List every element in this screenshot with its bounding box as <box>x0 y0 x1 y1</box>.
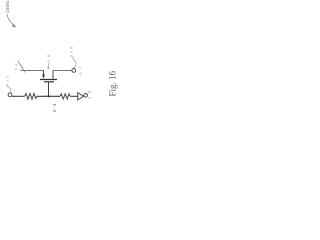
buffer triangle <box>78 93 84 100</box>
node: input terminal (bottom left) <box>8 93 12 97</box>
junction dot <box>47 95 49 97</box>
resistor R2 <box>60 94 70 99</box>
leader squiggle to 1602b <box>7 86 11 93</box>
resistor R1 <box>25 94 37 100</box>
source lead <box>52 71 54 80</box>
svg-text:Fig. 16: Fig. 16 <box>108 70 118 96</box>
wire: R2 to buffer <box>70 95 77 97</box>
leader squiggle to 1608 <box>73 57 76 69</box>
leader arrow from 1600 <box>7 14 14 25</box>
transistor Q1 (MOSFET) <box>40 71 57 97</box>
gate bar <box>44 81 54 83</box>
node: bottom input terminal <box>84 94 88 98</box>
wire: main right segment <box>53 70 72 72</box>
wire: main left segment <box>21 70 44 72</box>
drain lead with arrow <box>43 71 45 76</box>
node: output terminal <box>72 69 76 73</box>
svg-text:602: 602 <box>5 76 9 86</box>
leader arrow to transistor <box>47 63 49 67</box>
wire: R1 to junction to R2 <box>37 95 60 97</box>
antenna slash arrow <box>18 61 25 73</box>
wire: bottom from input to R1 <box>12 95 25 97</box>
gate lead <box>48 82 50 97</box>
svg-text:608: 608 <box>70 47 74 57</box>
channel <box>40 79 57 81</box>
svg-text:1600: 1600 <box>5 1 10 13</box>
